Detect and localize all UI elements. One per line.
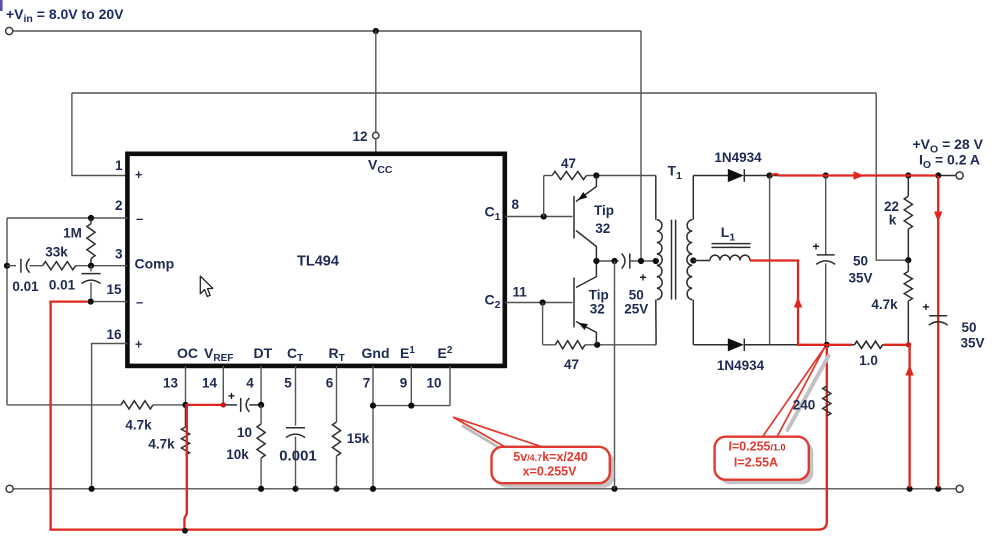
svg-text:OC: OC <box>177 345 198 361</box>
transistor Q2 TIP32 bottom <box>573 278 575 328</box>
node gnd pin7 <box>370 486 376 492</box>
svg-text:C2: C2 <box>485 292 501 312</box>
node bypass gnd branch <box>611 258 617 264</box>
svg-text:47: 47 <box>561 156 576 171</box>
svg-text:50: 50 <box>629 288 644 303</box>
node gnd primary bypass <box>611 486 617 492</box>
svg-text:10: 10 <box>237 425 252 440</box>
svg-text:14: 14 <box>202 376 218 391</box>
wire: emitter line to transformer primary bottom <box>585 344 656 346</box>
svg-text:+: + <box>639 271 646 285</box>
node output 22k <box>905 172 911 178</box>
red wire: sense to ground <box>908 345 910 488</box>
wire: pin 11 line to Q2 base <box>505 302 573 304</box>
node: Vcc tap junction on top rail <box>373 28 379 34</box>
node gnd output return <box>935 486 941 492</box>
wire: emitter line to transformer primary top <box>586 175 655 177</box>
svg-text:Gnd: Gnd <box>362 345 390 361</box>
node gnd 10k <box>258 486 264 492</box>
pin 10 stub <box>449 366 451 406</box>
wire: pins 7-9-10 tie line <box>373 405 450 407</box>
node output cap1 <box>823 172 829 178</box>
diode D1 1N4934 top <box>728 169 744 182</box>
node Q1 emitter <box>593 172 599 178</box>
transformer core <box>671 220 673 300</box>
svg-text:50: 50 <box>961 320 976 335</box>
svg-text:0.01: 0.01 <box>49 278 76 293</box>
wire: Q2 base branch down <box>542 303 544 345</box>
red arrow down on return drop <box>934 212 942 223</box>
svg-text:35V: 35V <box>960 336 984 351</box>
svg-text:Tip: Tip <box>594 203 614 218</box>
node primary center tap <box>653 258 659 264</box>
svg-text:4: 4 <box>246 376 254 391</box>
svg-text:6: 6 <box>326 376 334 391</box>
svg-text:1N4934: 1N4934 <box>717 358 765 373</box>
resistor 47 top <box>544 175 552 177</box>
svg-text:11: 11 <box>513 285 528 300</box>
svg-text:4.7k: 4.7k <box>148 437 175 452</box>
wire: feedback line y=93 from pin1 corner to right divider <box>72 92 876 94</box>
node cap to +Vin drop <box>638 258 644 264</box>
svg-text:+: + <box>135 338 142 352</box>
node red bottom rail <box>182 528 188 534</box>
node gnd 15k <box>333 486 339 492</box>
svg-text:13: 13 <box>163 376 179 391</box>
capacitor 10uF at VREF <box>223 404 237 406</box>
node collectors <box>593 258 599 264</box>
svg-text:I=2.55A: I=2.55A <box>734 456 778 470</box>
wire: left drop to pin 1 <box>72 93 128 176</box>
wire: collector node line <box>596 260 618 262</box>
svg-text:2: 2 <box>115 198 123 213</box>
svg-text:4.7k: 4.7k <box>125 418 152 433</box>
svg-text:Tip: Tip <box>589 288 609 303</box>
node gnd pin16 <box>89 486 95 492</box>
svg-text:1.0: 1.0 <box>859 353 878 368</box>
svg-text:C1: C1 <box>485 204 501 224</box>
node pin8 branch <box>541 213 547 219</box>
wire: right drop to 22k/4.7k divider node <box>876 93 908 260</box>
node pin4 junction <box>258 402 264 408</box>
svg-text:+Vin = 8.0V to 20V: +Vin = 8.0V to 20V <box>6 6 124 25</box>
svg-text:E1: E1 <box>400 345 415 361</box>
svg-text:25V: 25V <box>624 302 648 317</box>
input terminal +Vin <box>6 27 13 34</box>
callout 1 tail <box>453 417 541 447</box>
svg-text:x=0.255V: x=0.255V <box>523 465 578 479</box>
svg-text:0.01: 0.01 <box>12 279 39 294</box>
node divider 22k/4.7k <box>905 257 911 263</box>
ground terminal right <box>956 485 963 492</box>
wire: output top line <box>770 175 956 177</box>
transformer primary winding <box>655 176 657 220</box>
IC U1 TL494 body <box>127 154 504 366</box>
red arrow up on L1 drop <box>794 297 802 308</box>
pin 12 terminal circle <box>373 132 379 138</box>
svg-text:35V: 35V <box>848 271 872 286</box>
svg-text:DT: DT <box>254 345 273 361</box>
svg-text:5v/4.7k=x/240: 5v/4.7k=x/240 <box>513 450 588 464</box>
svg-text:7: 7 <box>363 376 371 391</box>
red wire: output top overlay <box>772 174 937 176</box>
svg-text:+: + <box>812 240 819 254</box>
diode D2 1N4934 bottom <box>728 338 744 351</box>
node pin7 tie <box>370 403 376 409</box>
wire: left rail <box>6 218 8 405</box>
red arrow up on sense ground drop <box>905 365 913 376</box>
inductor L1 core bars <box>712 243 751 245</box>
svg-text:+: + <box>135 168 142 182</box>
node pin2/1M junction <box>88 215 94 221</box>
svg-text:–: – <box>136 211 143 226</box>
svg-text:k: k <box>889 213 897 228</box>
capacitor 50/25V primary bypass <box>622 254 625 269</box>
svg-text:RT: RT <box>329 345 345 364</box>
node pin9 tie <box>408 403 414 409</box>
svg-text:I=0.255/1.0: I=0.255/1.0 <box>728 440 785 454</box>
wire: pin 8 line to Q1 base <box>505 216 573 218</box>
red wire: VREF to pin13 <box>186 404 224 406</box>
svg-text:33k: 33k <box>45 245 68 260</box>
wire: +Vin branch down to primary center tap <box>640 31 642 261</box>
red wire: output return drop <box>937 176 939 488</box>
node pin15 junction <box>88 299 94 305</box>
svg-text:0.001: 0.001 <box>279 448 317 465</box>
wire: pin 16 line <box>92 344 128 489</box>
red wire: L1 to sense node <box>750 261 798 345</box>
inductor L1 winding <box>693 260 710 262</box>
pin 6 stub <box>336 366 338 422</box>
wire: Vcc drop to pin 12 <box>375 31 377 132</box>
pin 9 stub <box>410 366 412 406</box>
wire: cathode tie vertical <box>769 176 771 345</box>
callout 1 box <box>496 451 614 487</box>
mouse cursor <box>200 276 213 296</box>
wire: pin 2 line <box>7 217 127 219</box>
node Q2 emitter <box>594 342 600 348</box>
wire: pin 15 line <box>91 301 128 303</box>
node: left rail to 0.01 cap <box>4 263 10 269</box>
transistor Q1 TIP32 top <box>573 196 575 239</box>
svg-text:5: 5 <box>284 376 292 391</box>
pin 7 Gnd stub down to ground rail <box>372 366 374 489</box>
resistor 33k horizontal <box>43 262 76 270</box>
svg-text:50: 50 <box>853 254 868 269</box>
node sense/240 junction <box>824 342 830 348</box>
callout 2 tail shadow <box>788 356 829 430</box>
callout 2 tail <box>763 347 825 437</box>
red node at pin14 <box>221 402 226 407</box>
svg-text:9: 9 <box>400 376 408 391</box>
resistor 22k <box>907 176 909 197</box>
node gnd sense return <box>907 486 913 492</box>
svg-text:3: 3 <box>115 247 123 262</box>
svg-text:8: 8 <box>512 197 520 212</box>
svg-text:T1: T1 <box>668 163 683 183</box>
svg-text:L1: L1 <box>721 224 736 244</box>
svg-text:10k: 10k <box>226 447 249 462</box>
svg-text:16: 16 <box>106 327 122 342</box>
pin 13 stub <box>185 366 187 405</box>
node pin3 junction <box>88 263 94 269</box>
resistor 1.0 sense zigzag overlay <box>854 341 882 348</box>
transformer secondary winding <box>692 176 694 220</box>
svg-text:+: + <box>228 389 235 403</box>
wire: top +Vin rail <box>13 30 641 32</box>
capacitor 0.01 vertical between pin3 and pin15 <box>90 266 92 272</box>
wire: secondary top to diode D1 <box>693 175 728 177</box>
red wire: pin13 drop to bottom rail <box>184 405 186 531</box>
wire: pin 3 line <box>76 265 128 267</box>
node pin11 branch <box>540 299 546 305</box>
red arrow right on output line <box>854 171 865 179</box>
resistor 1.0 sense <box>854 341 882 348</box>
ground rail <box>13 488 956 490</box>
svg-text:4.7k: 4.7k <box>871 297 898 312</box>
resistor 47 bottom <box>543 344 556 346</box>
svg-text:1: 1 <box>115 158 123 173</box>
red wire: 240 path down to bottom rail <box>51 302 827 530</box>
svg-text:VCC: VCC <box>368 157 393 177</box>
svg-text:E2: E2 <box>438 345 453 361</box>
pin 4 stub <box>260 366 262 405</box>
resistor 1M vertical <box>87 224 95 259</box>
red node sense right <box>906 342 911 347</box>
node output return top <box>935 172 941 178</box>
svg-text:–: – <box>136 295 143 310</box>
ground terminal left <box>6 485 13 492</box>
resistor 10k vertical <box>260 405 262 424</box>
callout 2 box <box>719 441 813 484</box>
svg-text:15: 15 <box>106 282 122 297</box>
wire: 4.7k line from left rail to pin 13 <box>7 404 121 406</box>
red wire: sense line overlay left <box>798 344 852 346</box>
capacitor 0.01 left (series) <box>7 265 16 267</box>
node D1 cathode <box>767 172 773 178</box>
node pin13 junction <box>182 402 188 408</box>
pin 14 stub <box>222 366 224 405</box>
resistor 4.7k vertical below pin13 <box>185 405 187 427</box>
capacitor 0.001 at CT <box>286 427 305 429</box>
svg-text:TL494: TL494 <box>297 254 339 270</box>
svg-text:Comp: Comp <box>135 256 175 272</box>
svg-text:+: + <box>922 300 929 314</box>
svg-text:IO = 0.2 A: IO = 0.2 A <box>919 152 980 172</box>
resistor 240 <box>823 386 831 416</box>
pin 5 stub <box>295 366 297 426</box>
wire: pin 12 stub into IC <box>375 139 377 154</box>
capacitor 50/35V output #1 <box>825 176 827 255</box>
wire: bypass drop to ground <box>614 261 616 489</box>
callout 1 tail shadow <box>462 426 503 451</box>
svg-text:32: 32 <box>595 221 610 236</box>
decor: purple corner mark <box>0 0 3 11</box>
wire: sense line with 1.0 resistor <box>770 344 855 346</box>
output terminal +Vo <box>956 172 963 179</box>
wire: Q1 base branch up <box>543 176 545 217</box>
svg-text:1M: 1M <box>63 226 82 241</box>
node gnd 0.001 <box>292 486 298 492</box>
red wire: sense line overlay right <box>884 344 909 346</box>
svg-text:CT: CT <box>287 345 303 364</box>
svg-text:240: 240 <box>793 398 816 413</box>
wire: secondary bottom to diode D2 <box>693 344 728 346</box>
svg-text:10: 10 <box>426 376 441 391</box>
resistor 15k vertical <box>332 422 340 456</box>
resistor 4.7k horizontal <box>121 401 153 409</box>
svg-text:12: 12 <box>352 129 367 144</box>
resistor 4.7k right <box>907 260 909 271</box>
svg-text:15k: 15k <box>347 431 370 446</box>
node secondary center tap <box>690 257 696 263</box>
svg-text:VREF: VREF <box>204 345 233 364</box>
svg-text:47: 47 <box>564 357 579 372</box>
svg-text:1N4934: 1N4934 <box>714 150 762 165</box>
svg-text:32: 32 <box>590 302 605 317</box>
